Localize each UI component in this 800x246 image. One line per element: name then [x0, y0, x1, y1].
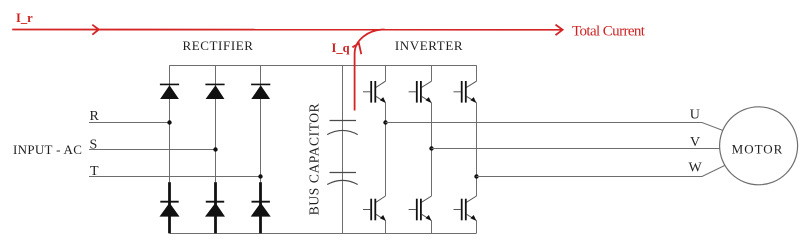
svg-text:INVERTER: INVERTER: [395, 38, 463, 53]
wire: rectifier leg 1 (thin part): [169, 65, 171, 182]
wire: rectifier leg 2 (thin part): [215, 65, 217, 182]
node: T junction: [258, 174, 262, 178]
wire: red total current line: [12, 29, 562, 31]
diode D3 (top leg 3): [251, 84, 270, 99]
svg-text:W: W: [689, 161, 703, 176]
transistor Q6 (inverter bottom leg 3): [454, 177, 477, 234]
wire: DC top bus: [170, 65, 477, 67]
svg-text:INPUT - AC: INPUT - AC: [13, 142, 82, 157]
diode D2 (top leg 2): [205, 84, 224, 99]
svg-text:I_r: I_r: [16, 11, 33, 25]
svg-text:U: U: [690, 107, 700, 122]
svg-text:V: V: [690, 135, 700, 150]
diode D6 (bottom leg 3): [251, 202, 271, 217]
wire: rectifier leg 3 (thin part): [260, 65, 262, 182]
wire: rectifier leg 3 lower thick part: [259, 182, 262, 233]
node: phase V junction: [429, 146, 433, 150]
wire: input phase T: [89, 176, 261, 178]
svg-text:S: S: [90, 137, 98, 152]
svg-text:R: R: [90, 109, 100, 124]
wire: rectifier leg 1 lower thick part: [168, 182, 171, 233]
capacitor C2 (lower): [327, 173, 358, 185]
diode D1 (top leg 1): [160, 84, 179, 99]
wire: input phase R: [89, 122, 170, 124]
arrowhead end red line: [556, 25, 563, 35]
transistor Q1 (inverter top leg 1): [363, 65, 386, 122]
wire: red I_q branch curve: [355, 30, 385, 111]
wire: DC bottom bus: [170, 233, 477, 235]
transistor Q5 (inverter top leg 3): [454, 65, 477, 176]
node: phase W junction: [474, 174, 478, 178]
wire: output phase U: [386, 123, 725, 132]
svg-text:BUS CAPACITOR: BUS CAPACITOR: [307, 103, 322, 215]
svg-text:Total Current: Total Current: [572, 24, 646, 40]
capacitor C1 (upper): [327, 121, 358, 135]
transistor Q3 (inverter top leg 2): [409, 65, 432, 148]
wire: output phase W: [477, 166, 725, 177]
arrowhead mid red line: [92, 25, 99, 35]
diode D5 (bottom leg 2): [205, 202, 225, 217]
arrowhead on I_q curve: [352, 43, 361, 54]
node: R junction: [167, 120, 171, 124]
wire: input phase S: [89, 149, 216, 151]
svg-text:I_q: I_q: [332, 41, 350, 55]
svg-text:RECTIFIER: RECTIFIER: [182, 38, 253, 53]
node: S junction: [213, 147, 217, 151]
transistor Q4 (inverter bottom leg 2): [409, 149, 432, 234]
motor M1 circle: [720, 107, 798, 185]
wire: rectifier leg 2 lower thick part: [214, 182, 217, 233]
diode D4 (bottom leg 1): [160, 202, 180, 217]
svg-text:MOTOR: MOTOR: [732, 142, 784, 157]
wire: bus capacitor branch: [342, 65, 344, 233]
wire: output phase V: [432, 148, 720, 150]
transistor Q2 (inverter bottom leg 1): [363, 123, 386, 234]
node: phase U junction: [383, 120, 387, 124]
